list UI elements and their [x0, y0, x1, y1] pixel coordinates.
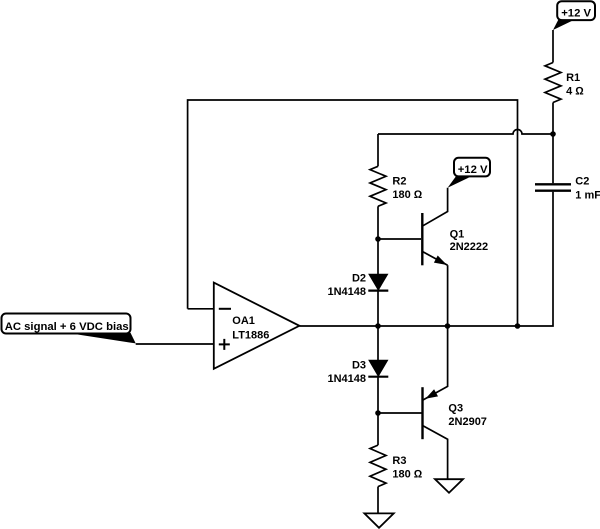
wire R3 to ground	[377, 487, 379, 514]
junction node feedback/output	[515, 323, 521, 329]
junction node Q1 base	[375, 236, 381, 242]
svg-text:OA1: OA1	[232, 315, 255, 327]
svg-text:1N4148: 1N4148	[327, 286, 366, 298]
svg-text:D2: D2	[352, 272, 366, 284]
svg-text:R3: R3	[392, 455, 406, 467]
svg-text:Q3: Q3	[448, 403, 463, 415]
svg-text:180 Ω: 180 Ω	[392, 469, 422, 481]
wire inverting input	[188, 308, 214, 310]
wire node to C2	[552, 134, 554, 183]
svg-text:+12 V: +12 V	[561, 8, 591, 20]
wire op-amp output row	[299, 325, 517, 327]
op-amp U1 OA1 triangle	[214, 283, 300, 369]
wire R2 bottom to D2	[377, 206, 379, 274]
wire D3 to Q3 base node	[377, 377, 379, 445]
svg-text:1N4148: 1N4148	[327, 373, 366, 385]
wire D2 to output row	[377, 291, 379, 326]
svg-text:D3: D3	[352, 359, 366, 371]
svg-text:2N2222: 2N2222	[450, 241, 489, 253]
junction node output/diodes	[375, 323, 381, 329]
ground below Q3	[435, 479, 463, 493]
wire Q1 base	[378, 238, 421, 240]
svg-text:180 Ω: 180 Ω	[392, 189, 422, 201]
svg-text:Q1: Q1	[450, 228, 465, 240]
junction node emitters/output	[445, 323, 451, 329]
svg-text:AC signal + 6 VDC bias: AC signal + 6 VDC bias	[5, 321, 129, 333]
wire Q3 base	[378, 412, 422, 414]
resistor R3	[370, 445, 423, 487]
svg-text:+12 V: +12 V	[458, 164, 488, 176]
svg-text:C2: C2	[575, 176, 589, 188]
ground below R3	[364, 513, 393, 527]
wire R2 top row with hop over feedback	[378, 130, 553, 135]
junction node Q3 base	[375, 410, 381, 416]
svg-text:4 Ω: 4 Ω	[566, 86, 584, 98]
wire +12V flag to R1	[552, 30, 554, 63]
transistor Q1 2N2222	[422, 188, 488, 326]
transistor Q3 2N2907	[423, 326, 487, 479]
wire output row to D3	[377, 326, 379, 360]
wire C2 bottom to output row	[518, 192, 554, 326]
svg-text:R1: R1	[566, 72, 580, 84]
input label AC signal + 6 VDC bias	[2, 314, 136, 344]
resistor R1	[545, 63, 584, 103]
svg-text:LT1886: LT1886	[232, 329, 269, 341]
junction node R1/C2/R2	[550, 131, 556, 137]
svg-text:R2: R2	[392, 175, 406, 187]
wire non-inverting input	[136, 343, 215, 345]
capacitor C2	[535, 176, 600, 202]
wire R2 top	[377, 134, 379, 166]
power flag +12V at Q1 collector	[448, 158, 490, 188]
diode D2	[327, 272, 388, 298]
svg-text:2N2907: 2N2907	[448, 416, 487, 428]
diode D3	[327, 359, 388, 385]
feedback wire loop	[188, 100, 518, 326]
wire R1 to node	[552, 103, 554, 135]
resistor R2	[370, 166, 423, 206]
svg-text:1 mF: 1 mF	[575, 190, 600, 202]
power flag +12V top right	[553, 1, 595, 30]
